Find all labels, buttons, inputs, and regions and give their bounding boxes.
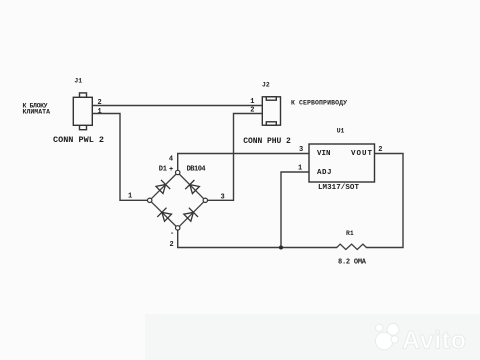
wire bridge pin2 to R1 (178, 230, 337, 248)
svg-text:3: 3 (299, 146, 303, 154)
svg-text:ADJ: ADJ (317, 169, 332, 177)
watermark avito logo circles (375, 324, 398, 350)
svg-text:J1: J1 (74, 78, 82, 85)
svg-text:R1: R1 (346, 230, 354, 237)
svg-text:КЛИМАТА: КЛИМАТА (23, 109, 51, 116)
watermark band (145, 314, 480, 360)
bridge pin 3 terminal (203, 198, 207, 202)
diode D1b (right-top) (185, 180, 199, 194)
svg-text:1: 1 (298, 164, 302, 172)
bridge pin 2 terminal (176, 226, 180, 230)
svg-text:Avito: Avito (402, 327, 466, 355)
svg-text:U1: U1 (337, 127, 345, 134)
resistor R1 (337, 244, 367, 249)
wire J1.2 to J2.1 (92, 105, 262, 107)
svg-text:+: + (169, 166, 173, 174)
bridge pin 4 terminal (176, 170, 180, 174)
svg-text:CONN PWL 2: CONN PWL 2 (53, 135, 104, 145)
wire bridge pin4 to U1 VIN (178, 154, 309, 171)
svg-text:VIN: VIN (317, 150, 331, 158)
bridge pin 1 terminal (148, 198, 152, 202)
svg-text:1: 1 (250, 98, 254, 106)
diode D1a (left-top) (156, 180, 170, 194)
wire U1 ADJ to node (281, 172, 309, 248)
wire U1 VOUT to R1 (367, 154, 404, 248)
svg-text:1: 1 (98, 108, 102, 116)
svg-text:2: 2 (250, 107, 254, 115)
diode D1d (bottom-right) (184, 208, 198, 222)
net label К БЛОКУ КЛИМАТА (23, 102, 51, 115)
svg-text:2: 2 (378, 146, 382, 154)
svg-text:DB104: DB104 (187, 166, 206, 174)
svg-text:LM317/SOT: LM317/SOT (318, 184, 359, 192)
svg-text:К СЕРВОПРИВОДУ: К СЕРВОПРИВОДУ (291, 99, 347, 106)
wire J1.1 to bridge pin1 (92, 114, 147, 201)
svg-text:2: 2 (98, 99, 102, 107)
svg-text:3: 3 (221, 194, 225, 202)
svg-text:VOUT: VOUT (351, 150, 372, 158)
svg-text:1: 1 (128, 192, 132, 200)
svg-text:J2: J2 (262, 81, 270, 88)
connector J1 (73, 93, 92, 130)
junction dot node ADJ/R1 (279, 246, 283, 250)
wire J2.2 to bridge pin3 (208, 114, 263, 201)
op-amp U1 regulator box (309, 144, 375, 182)
svg-text:8.2 ОМА: 8.2 ОМА (338, 259, 367, 267)
diode D1c (bottom-left) (157, 208, 171, 222)
bridge rectifier D1 diamond (150, 173, 206, 228)
svg-text:-: - (170, 230, 174, 238)
connector J2 (262, 97, 280, 125)
svg-text:2: 2 (170, 241, 174, 249)
svg-text:4: 4 (169, 155, 173, 163)
svg-text:D1: D1 (159, 166, 167, 174)
svg-text:CONN PHU 2: CONN PHU 2 (243, 137, 291, 146)
